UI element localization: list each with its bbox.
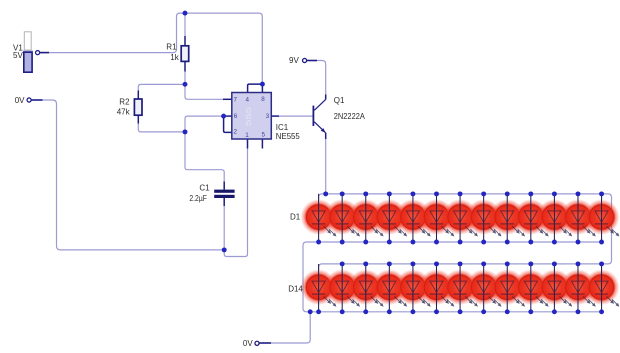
svg-text:5: 5 bbox=[262, 132, 266, 139]
svg-text:1: 1 bbox=[245, 132, 249, 139]
svg-text:47k: 47k bbox=[117, 107, 131, 116]
svg-text:555: 555 bbox=[246, 107, 253, 126]
svg-text:1k: 1k bbox=[170, 53, 179, 62]
svg-text:D14: D14 bbox=[288, 285, 303, 294]
svg-text:6: 6 bbox=[234, 113, 238, 120]
svg-text:NE555: NE555 bbox=[276, 132, 301, 141]
svg-text:4: 4 bbox=[246, 96, 250, 103]
svg-text:7: 7 bbox=[234, 96, 238, 103]
svg-text:0V: 0V bbox=[15, 96, 25, 105]
svg-text:R1: R1 bbox=[166, 43, 177, 52]
svg-text:Q1: Q1 bbox=[334, 96, 345, 105]
svg-text:3: 3 bbox=[266, 113, 270, 120]
svg-text:2.2µF: 2.2µF bbox=[189, 194, 207, 203]
svg-text:0V: 0V bbox=[243, 339, 253, 348]
svg-text:9V: 9V bbox=[289, 56, 299, 65]
svg-text:8: 8 bbox=[261, 96, 265, 103]
svg-text:2: 2 bbox=[234, 129, 238, 136]
svg-text:5V: 5V bbox=[13, 51, 23, 60]
svg-text:C1: C1 bbox=[199, 184, 210, 193]
svg-text:2N2222A: 2N2222A bbox=[334, 112, 366, 121]
svg-text:R2: R2 bbox=[119, 98, 130, 107]
svg-text:D1: D1 bbox=[290, 213, 301, 222]
